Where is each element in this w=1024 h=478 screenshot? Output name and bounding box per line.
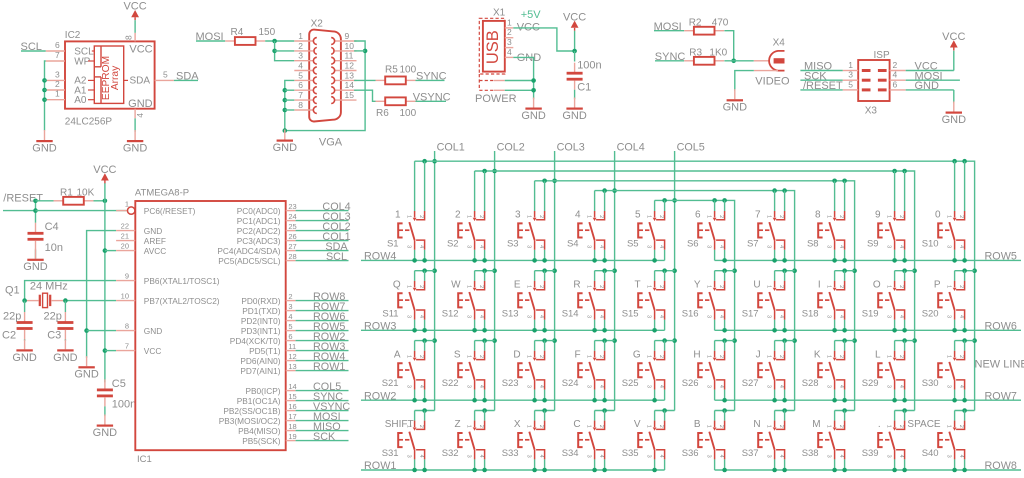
svg-text:2: 2 <box>538 285 544 288</box>
wire COL5 top bus <box>655 200 735 410</box>
svg-text:SDA: SDA <box>130 76 151 87</box>
svg-text:4: 4 <box>598 455 604 458</box>
svg-text:4: 4 <box>838 245 844 248</box>
resistor R3 1K0 <box>684 47 727 64</box>
VCC symbol above C1 <box>563 11 586 51</box>
svg-text:C4: C4 <box>45 221 59 233</box>
svg-text:VIDEO: VIDEO <box>755 75 790 87</box>
svg-text:COL3: COL3 <box>557 141 585 153</box>
VCC symbol IC1 <box>93 164 116 184</box>
junction GND pin8 <box>84 328 89 333</box>
wire to C3 <box>64 301 66 312</box>
junction S21 pin4 row <box>422 398 427 403</box>
svg-text:5: 5 <box>288 322 292 331</box>
svg-text:PD6(AIN0): PD6(AIN0) <box>240 356 280 366</box>
svg-text:3: 3 <box>886 245 892 248</box>
wire top jog S17 <box>775 270 795 272</box>
svg-text:27: 27 <box>288 242 296 251</box>
svg-text:VCC: VCC <box>144 346 162 356</box>
svg-text:2: 2 <box>507 27 512 37</box>
junction bus4 right p2 <box>782 188 787 193</box>
svg-text:4: 4 <box>538 385 544 388</box>
junction VCC pin7 <box>103 348 108 353</box>
IC2 pin 4 GND bottom <box>128 98 153 118</box>
svg-text:2: 2 <box>418 425 424 428</box>
junction jog p2 S27 <box>782 338 787 343</box>
junction drop COL4 row2 jog <box>792 268 797 273</box>
wire top jog S20 <box>955 270 975 272</box>
svg-text:SCK: SCK <box>313 431 336 443</box>
junction VGA ground corner <box>283 128 288 133</box>
junction S35 pin3 row <box>652 468 657 473</box>
svg-text:2: 2 <box>298 41 303 51</box>
svg-text:1K0: 1K0 <box>709 47 727 58</box>
junction drop COL1 row2 jog <box>972 268 977 273</box>
wire top jog S37 <box>775 410 795 412</box>
junction jog p2 S25 <box>662 338 667 343</box>
svg-text:PC3(ADC3): PC3(ADC3) <box>237 236 281 246</box>
svg-text:PD4(XCK/T0): PD4(XCK/T0) <box>230 336 281 346</box>
svg-text:W: W <box>451 280 461 291</box>
svg-text:Q1: Q1 <box>5 284 20 296</box>
svg-text:2: 2 <box>538 215 544 218</box>
svg-text:ROW1: ROW1 <box>313 361 345 373</box>
X3 contact bars row 3 <box>862 88 887 91</box>
svg-text:4: 4 <box>838 385 844 388</box>
svg-text:100n: 100n <box>112 399 136 411</box>
svg-text:4: 4 <box>478 385 484 388</box>
junction S18 pin3 row <box>832 328 837 333</box>
svg-text:2: 2 <box>598 425 604 428</box>
crystal Q1 24MHz <box>5 280 68 307</box>
svg-text:3: 3 <box>766 455 772 458</box>
svg-text:2: 2 <box>778 285 784 288</box>
switch S5 key 5 <box>627 200 665 260</box>
svg-text:20: 20 <box>121 241 129 250</box>
X1 pin 4 GND <box>505 47 541 64</box>
junction bus1 right p1 <box>952 159 957 164</box>
junction COL2 bus <box>492 169 497 174</box>
ground IC2 address rail <box>44 130 46 140</box>
svg-text:24: 24 <box>288 212 296 221</box>
svg-text:2: 2 <box>838 425 844 428</box>
svg-text:4: 4 <box>538 315 544 318</box>
svg-text:11: 11 <box>288 342 296 351</box>
junction bus3 right p2 <box>842 179 847 184</box>
svg-text:ROW5: ROW5 <box>985 251 1017 263</box>
svg-text:PC4(ADC4/SDA): PC4(ADC4/SDA) <box>217 246 280 256</box>
junction S11 pin3 row <box>412 328 417 333</box>
junction shield 2 <box>531 88 536 93</box>
junction jog p2 S33 <box>542 408 547 413</box>
switch S16 key Y <box>682 271 725 331</box>
svg-text:3: 3 <box>946 385 952 388</box>
svg-text:SCL: SCL <box>326 251 347 263</box>
capacitor C1 100n <box>567 59 602 93</box>
svg-text:100: 100 <box>400 64 417 75</box>
svg-text:2: 2 <box>418 215 424 218</box>
svg-text:3: 3 <box>766 245 772 248</box>
svg-text:4: 4 <box>598 385 604 388</box>
switch S11 key Q <box>382 271 424 331</box>
svg-text:4: 4 <box>718 315 724 318</box>
switch S20 key P <box>922 271 965 331</box>
svg-text:6: 6 <box>55 40 60 50</box>
connector X3 ISP body <box>858 50 890 116</box>
wire VGA pin14 to R6 <box>354 90 375 101</box>
svg-text:PD3(INT1): PD3(INT1) <box>241 326 281 336</box>
junction bus2 left p2 <box>482 169 487 174</box>
svg-text:1: 1 <box>466 425 472 428</box>
wire junction to C1 <box>574 51 576 62</box>
switch S23 key D <box>502 341 545 401</box>
svg-text:COL1: COL1 <box>437 141 465 153</box>
wire shield2 to GND wire <box>505 89 534 91</box>
IC1 pin 25 PC2(ADC2) net COL2 <box>237 221 351 236</box>
svg-text:2: 2 <box>658 285 664 288</box>
svg-text:3: 3 <box>946 455 952 458</box>
svg-text:Z: Z <box>454 419 460 430</box>
connector X2 VGA body <box>309 19 343 149</box>
junction jog p2 S36 <box>722 408 727 413</box>
IC1 pin 11 PD5(T1) net ROW3 <box>249 341 348 356</box>
svg-text:COL2: COL2 <box>497 141 525 153</box>
X2 pin 13 <box>331 70 356 83</box>
svg-text:S31: S31 <box>382 448 399 459</box>
svg-text:3: 3 <box>646 315 652 318</box>
switch S29 key L <box>862 341 905 401</box>
wire /RESET to IC1 pin1 <box>36 210 128 212</box>
wire top jog S36 <box>715 410 735 412</box>
junction jog p2 S34 <box>602 408 607 413</box>
wire top jog S15 <box>655 270 675 272</box>
switch S35 key V <box>622 411 665 471</box>
svg-text:R: R <box>573 280 580 291</box>
svg-text:12: 12 <box>288 352 296 361</box>
svg-text:GND: GND <box>23 261 48 273</box>
svg-text:9: 9 <box>345 31 350 41</box>
svg-text:R1: R1 <box>60 188 73 199</box>
junction S24 pin3 row <box>592 398 597 403</box>
ground IC2 pin4 <box>134 130 136 140</box>
svg-text:C5: C5 <box>112 378 126 390</box>
wire X1 GND down <box>513 57 533 99</box>
junction S29 pin4 row <box>902 398 907 403</box>
switch S15 key T <box>622 271 665 331</box>
svg-text:4: 4 <box>478 245 484 248</box>
junction drop COL5 row2 jog <box>732 268 737 273</box>
junction S7 pin4 row <box>782 258 787 263</box>
junction bus4 left p2 <box>602 188 607 193</box>
svg-text:3: 3 <box>706 245 712 248</box>
switch S36 key B <box>682 411 725 471</box>
svg-text:2: 2 <box>598 285 604 288</box>
svg-text:4: 4 <box>958 245 964 248</box>
svg-text:3: 3 <box>515 210 521 221</box>
wire top jog S22 <box>475 340 495 342</box>
svg-text:A: A <box>394 349 401 360</box>
svg-text:15: 15 <box>345 90 355 100</box>
svg-text:J: J <box>756 349 761 360</box>
junction jog p2 S26 <box>722 338 727 343</box>
junction S37 pin4 row <box>782 468 787 473</box>
IC2 inner EEPROM array symbol <box>94 46 123 103</box>
junction COL3 bus <box>552 179 557 184</box>
ground C4 <box>35 249 37 259</box>
svg-text:USB: USB <box>484 30 502 64</box>
svg-text:7: 7 <box>755 210 761 221</box>
svg-text:3: 3 <box>766 315 772 318</box>
net label VSYNC (VGA) <box>413 92 451 104</box>
svg-text:8: 8 <box>124 35 134 40</box>
IC1 pin 16 PB2(SS/OC1B) net VSYNC <box>223 401 350 416</box>
switch S9 key 9 <box>867 171 905 260</box>
svg-text:1: 1 <box>946 285 952 288</box>
svg-text:WP: WP <box>74 56 90 67</box>
svg-text:14: 14 <box>288 382 296 391</box>
VCC symbol ISP <box>942 31 965 51</box>
resistor R5 100 <box>376 64 417 84</box>
connector X4 video jack <box>754 38 790 88</box>
svg-text:R5: R5 <box>385 64 398 75</box>
switch S4 key 4 <box>567 191 605 261</box>
switch S21 key A <box>382 341 425 401</box>
svg-text:GND: GND <box>562 110 587 122</box>
X1 pin 3 <box>505 37 514 48</box>
svg-text:4: 4 <box>418 385 424 388</box>
resistor R6 100 <box>376 97 417 119</box>
wire COL2 vertical <box>494 151 496 411</box>
svg-text:ROW7: ROW7 <box>985 390 1017 402</box>
svg-text:+5V: +5V <box>521 9 542 21</box>
svg-text:S1: S1 <box>387 238 399 249</box>
switch S19 key O <box>862 271 905 331</box>
junction jog p2 S37 <box>782 408 787 413</box>
svg-text:1: 1 <box>946 355 952 358</box>
svg-text:3: 3 <box>406 385 412 388</box>
wire top jog S32 <box>475 410 495 412</box>
junction S27 pin3 row <box>772 398 777 403</box>
svg-text:4: 4 <box>898 455 904 458</box>
svg-text:4: 4 <box>718 245 724 248</box>
junction S40 pin3 row <box>952 468 957 473</box>
svg-text:1: 1 <box>406 355 412 358</box>
junction S33 pin4 row <box>542 468 547 473</box>
junction bus1 left p2 <box>422 159 427 164</box>
junction reset pin wire <box>33 208 38 213</box>
svg-text:3: 3 <box>706 385 712 388</box>
junction S2 pin4 row <box>482 258 487 263</box>
wire top jog S23 <box>535 340 555 342</box>
IC1 pin 3 PD1(TXD) net ROW7 <box>242 301 348 316</box>
svg-text:4: 4 <box>898 385 904 388</box>
svg-text:S5: S5 <box>627 238 639 249</box>
switch S17 key U <box>742 271 785 331</box>
svg-text:2: 2 <box>478 285 484 288</box>
svg-text:2: 2 <box>958 425 964 428</box>
svg-text:S13: S13 <box>502 308 519 319</box>
wire top jog S28 <box>835 340 855 342</box>
svg-text:S18: S18 <box>802 308 819 319</box>
svg-text:18: 18 <box>288 422 296 431</box>
svg-text:2: 2 <box>898 215 904 218</box>
svg-text:ISP: ISP <box>874 50 890 61</box>
net label MOSI (video) <box>654 21 685 33</box>
junction S11 pin4 row <box>422 328 427 333</box>
svg-text:2: 2 <box>658 355 664 358</box>
junction S1 pin3 row <box>412 258 417 263</box>
svg-text:16: 16 <box>288 402 296 411</box>
junction S34 pin4 row <box>602 468 607 473</box>
svg-text:4: 4 <box>598 245 604 248</box>
wire top jog S29 <box>895 340 915 342</box>
junction R1 VCC <box>103 199 108 204</box>
svg-text:3: 3 <box>507 37 512 47</box>
svg-text:3: 3 <box>466 315 472 318</box>
junction S28 pin4 row <box>842 398 847 403</box>
svg-text:4: 4 <box>658 315 664 318</box>
svg-text:3: 3 <box>526 455 532 458</box>
svg-text:2: 2 <box>958 355 964 358</box>
svg-text:1: 1 <box>586 215 592 218</box>
svg-text:6: 6 <box>288 332 292 341</box>
junction drop COL2 row2 jog <box>912 268 917 273</box>
svg-text:H: H <box>693 349 700 360</box>
X2 pin 14 <box>331 80 356 94</box>
svg-text:GND: GND <box>273 142 298 154</box>
junction bus3 left p2 <box>542 179 547 184</box>
svg-text:POWER: POWER <box>475 93 517 105</box>
switch S24 key F <box>562 341 605 401</box>
junction S9 pin4 row <box>902 258 907 263</box>
junction S1 pin4 row <box>422 258 427 263</box>
junction R4 output <box>272 39 277 44</box>
svg-text:3: 3 <box>826 245 832 248</box>
svg-text:1: 1 <box>826 355 832 358</box>
X3 pin 6 <box>890 79 906 90</box>
svg-text:PC6(/RESET): PC6(/RESET) <box>144 206 196 216</box>
svg-text:4: 4 <box>958 385 964 388</box>
svg-text:S35: S35 <box>622 448 639 459</box>
svg-text:4: 4 <box>418 455 424 458</box>
junction jog p2 S16 <box>722 268 727 273</box>
wire COL5 vertical <box>674 151 676 411</box>
svg-text:GND: GND <box>53 352 78 364</box>
svg-text:2: 2 <box>898 425 904 428</box>
svg-text:1: 1 <box>826 215 832 218</box>
junction S17 pin3 row <box>772 328 777 333</box>
X2 pin 7 <box>294 90 317 103</box>
IC2 pin 2 A1 <box>46 79 95 96</box>
junction S4 pin3 row <box>592 258 597 263</box>
svg-text:1: 1 <box>706 285 712 288</box>
junction jog p2 S13 <box>542 268 547 273</box>
junction COL4 bus <box>612 188 617 193</box>
svg-text:4: 4 <box>538 245 544 248</box>
switch S38 key M <box>802 411 845 471</box>
wire top jog S12 <box>475 270 495 272</box>
svg-text:4: 4 <box>718 385 724 388</box>
svg-text:Y: Y <box>694 280 701 291</box>
X2 pin 15 <box>331 90 356 103</box>
ground X1 <box>533 98 535 108</box>
svg-text:S8: S8 <box>807 238 819 249</box>
wire top jog S26 <box>715 340 735 342</box>
svg-text:PD5(T1): PD5(T1) <box>249 346 281 356</box>
wire reset to R1 <box>36 200 54 202</box>
svg-text:4: 4 <box>418 245 424 248</box>
switch S34 key C <box>562 411 605 471</box>
svg-text:4: 4 <box>575 210 581 221</box>
junction jog p2 S15 <box>662 268 667 273</box>
junction S26 pin4 row <box>722 398 727 403</box>
svg-text:1: 1 <box>298 31 303 41</box>
svg-text:3: 3 <box>646 245 652 248</box>
svg-text:2: 2 <box>958 215 964 218</box>
svg-text:19: 19 <box>288 432 296 441</box>
junction jog p2 S38 <box>842 408 847 413</box>
X3 pin 5 <box>843 79 859 90</box>
svg-text:1: 1 <box>886 215 892 218</box>
svg-text:PB3(MOSI/OC2): PB3(MOSI/OC2) <box>219 416 281 426</box>
svg-text:1: 1 <box>646 355 652 358</box>
svg-text:2: 2 <box>778 355 784 358</box>
svg-text:X2: X2 <box>311 19 324 30</box>
svg-text:1: 1 <box>646 285 652 288</box>
junction S39 pin3 row <box>892 468 897 473</box>
svg-text:S2: S2 <box>447 238 459 249</box>
wire ISP GND down <box>953 90 955 103</box>
junction COL2 row3 jog <box>492 338 497 343</box>
svg-text:10n: 10n <box>45 242 63 254</box>
svg-text:AREF: AREF <box>144 236 166 246</box>
switch S28 key K <box>802 341 845 401</box>
svg-text:2: 2 <box>958 285 964 288</box>
IC1 pin 6 PD4(XCK/T0) net ROW2 <box>230 331 349 346</box>
svg-text:4: 4 <box>958 315 964 318</box>
net label SCK <box>800 70 842 82</box>
X2 pin 11 <box>331 51 356 64</box>
svg-text:S27: S27 <box>742 378 759 389</box>
IC1 pin 14 PB0(ICP) net COL5 <box>245 381 348 396</box>
wire C1 to ground <box>574 90 576 100</box>
capacitor C5 100n <box>97 378 136 411</box>
junction S7 pin3 row <box>772 258 777 263</box>
net label SYNC (video) <box>655 51 686 63</box>
svg-text:1: 1 <box>526 215 532 218</box>
ground C1 <box>574 98 576 108</box>
svg-text:X1: X1 <box>493 8 506 19</box>
X2 pin 2 <box>294 41 317 54</box>
junction S12 pin3 row <box>472 328 477 333</box>
wire top jog S39 <box>895 410 915 412</box>
wire R2 to junction <box>724 31 733 61</box>
net label SDA <box>174 71 199 83</box>
junction jog p2 S31 <box>422 408 427 413</box>
svg-text:R2: R2 <box>689 17 702 28</box>
junction COL1 row2 jog <box>432 268 437 273</box>
svg-text:2: 2 <box>838 355 844 358</box>
svg-text:6: 6 <box>298 80 303 90</box>
junction bus5 left p2 <box>662 198 667 203</box>
junction S34 pin3 row <box>592 468 597 473</box>
junction drop COL1 row3 jog <box>972 338 977 343</box>
svg-text:4: 4 <box>778 385 784 388</box>
switch S2 key 2 <box>447 171 485 260</box>
VCC symbol above IC2 <box>123 1 146 33</box>
junction S13 pin3 row <box>532 328 537 333</box>
X3 pin 1 <box>843 60 859 71</box>
